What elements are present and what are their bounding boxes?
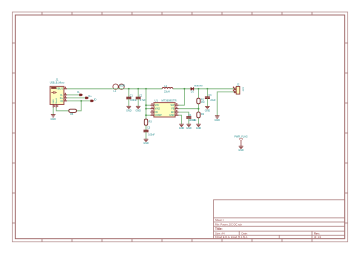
svg-text:4.7uF: 4.7uF [140,100,146,102]
svg-text:1M: 1M [201,101,204,104]
svg-text:GND: GND [238,149,244,152]
svg-text:D+: D+ [88,94,92,98]
svg-text:VBUS: VBUS [56,88,63,91]
ground C1 [126,106,132,112]
svg-text:GND: GND [169,114,175,117]
junction pin1 [145,104,147,106]
wire SW up [179,89,185,105]
wire D- stub [67,94,79,96]
svg-text:J1: J1 [56,78,59,82]
svg-text:100nF: 100nF [148,135,155,137]
svg-text:GND: GND [53,99,55,104]
junction pin4 [145,114,147,116]
title block text [215,218,322,239]
power flag [234,136,247,147]
inductor L2 [162,85,173,93]
wire shield net [53,101,81,115]
svg-text:GND: GND [215,119,221,122]
junction pin2 [145,108,147,110]
resistor R2 [193,112,205,122]
svg-text:U1: U1 [155,99,159,103]
diode D1 [191,85,204,93]
svg-text:Title:: Title: [215,227,223,231]
svg-text:100nF: 100nF [130,100,137,102]
ground pwr flag [238,146,244,152]
svg-text:B5819W: B5819W [194,85,203,87]
ground C3 [205,106,211,112]
junction divider top [198,88,200,90]
ground usb [51,115,57,121]
svg-text:GND: GND [143,142,149,145]
ground J2 [215,116,221,122]
svg-text:Sheet: /: Sheet: / [215,218,224,222]
wire GND pin [179,115,182,124]
svg-text:Size: A4: Size: A4 [215,231,225,235]
ground C5 [143,139,149,145]
resistor R1 [197,98,205,104]
capacitor C2 [136,89,146,107]
pins [53,89,67,108]
svg-text:22uH: 22uH [164,90,170,93]
svg-text:PWR_FLAG: PWR_FLAG [234,136,247,139]
svg-text:COMP: COMP [155,114,163,117]
svg-text:ID: ID [94,98,97,102]
junction C3 [207,88,209,90]
svg-text:USB_B_Micro: USB_B_Micro [50,81,65,84]
connector J1 USB [50,78,67,108]
global label ID [91,98,97,102]
svg-text:GND: GND [205,109,211,112]
wire D+ stub [67,97,85,99]
junction shield [80,100,82,102]
svg-text:Date:: Date: [242,231,248,235]
ground divider [196,124,202,130]
capacitor C1 [126,89,137,107]
global label D+ [85,94,92,99]
junction FB node [198,108,200,110]
wire divider [198,89,200,124]
svg-text:ID: ID [61,100,64,103]
svg-text:GND: GND [196,127,202,130]
pin names [56,88,63,103]
connector J2 [234,83,243,95]
svg-text:22uF: 22uF [210,100,216,102]
wire VBUS rail [67,88,235,90]
wire EN to C4 [179,112,189,117]
inductor L1 [112,84,127,93]
USB logo [51,87,56,89]
svg-text:Id: 1/1: Id: 1/1 [314,235,322,239]
junction VIN rail [145,88,147,90]
svg-text:Rev:: Rev: [314,231,320,235]
svg-text:GND: GND [126,109,132,112]
junction SW [184,88,186,90]
capacitor C4 [186,115,195,124]
ground C4 [186,124,192,130]
wire VIN rail vertical [146,89,150,119]
resistor R3 [144,119,152,125]
pin numbers [54,87,234,115]
svg-text:GND: GND [51,118,57,121]
svg-text:GND: GND [179,127,185,130]
wire FB [179,108,199,110]
wire J2 gnd [217,92,235,116]
svg-text:File: Power_DC-DC.sch: File: Power_DC-DC.sch [215,222,243,226]
capacitor C5 [144,125,156,139]
resistor R6 shield [69,109,77,116]
capacitor C3 [205,89,216,107]
svg-text:D-: D- [77,90,80,94]
svg-text:KiCad E.D.A. kicad (5.1.6)-1: KiCad E.D.A. kicad (5.1.6)-1 [215,235,248,239]
ground C2 [136,106,142,112]
junction C1 [128,88,130,90]
wire ID stub [67,100,90,102]
title block [214,200,345,239]
svg-text:600R: 600R [119,85,125,88]
ground U1 [179,124,185,130]
svg-text:Shield: Shield [56,98,58,104]
IC U1 MT3608 [150,99,178,117]
global label D- [77,90,82,96]
svg-text:MT3608GTR: MT3608GTR [162,99,177,103]
svg-text:GND: GND [186,127,192,130]
svg-text:GND: GND [136,109,142,112]
junction C2 [137,88,139,90]
